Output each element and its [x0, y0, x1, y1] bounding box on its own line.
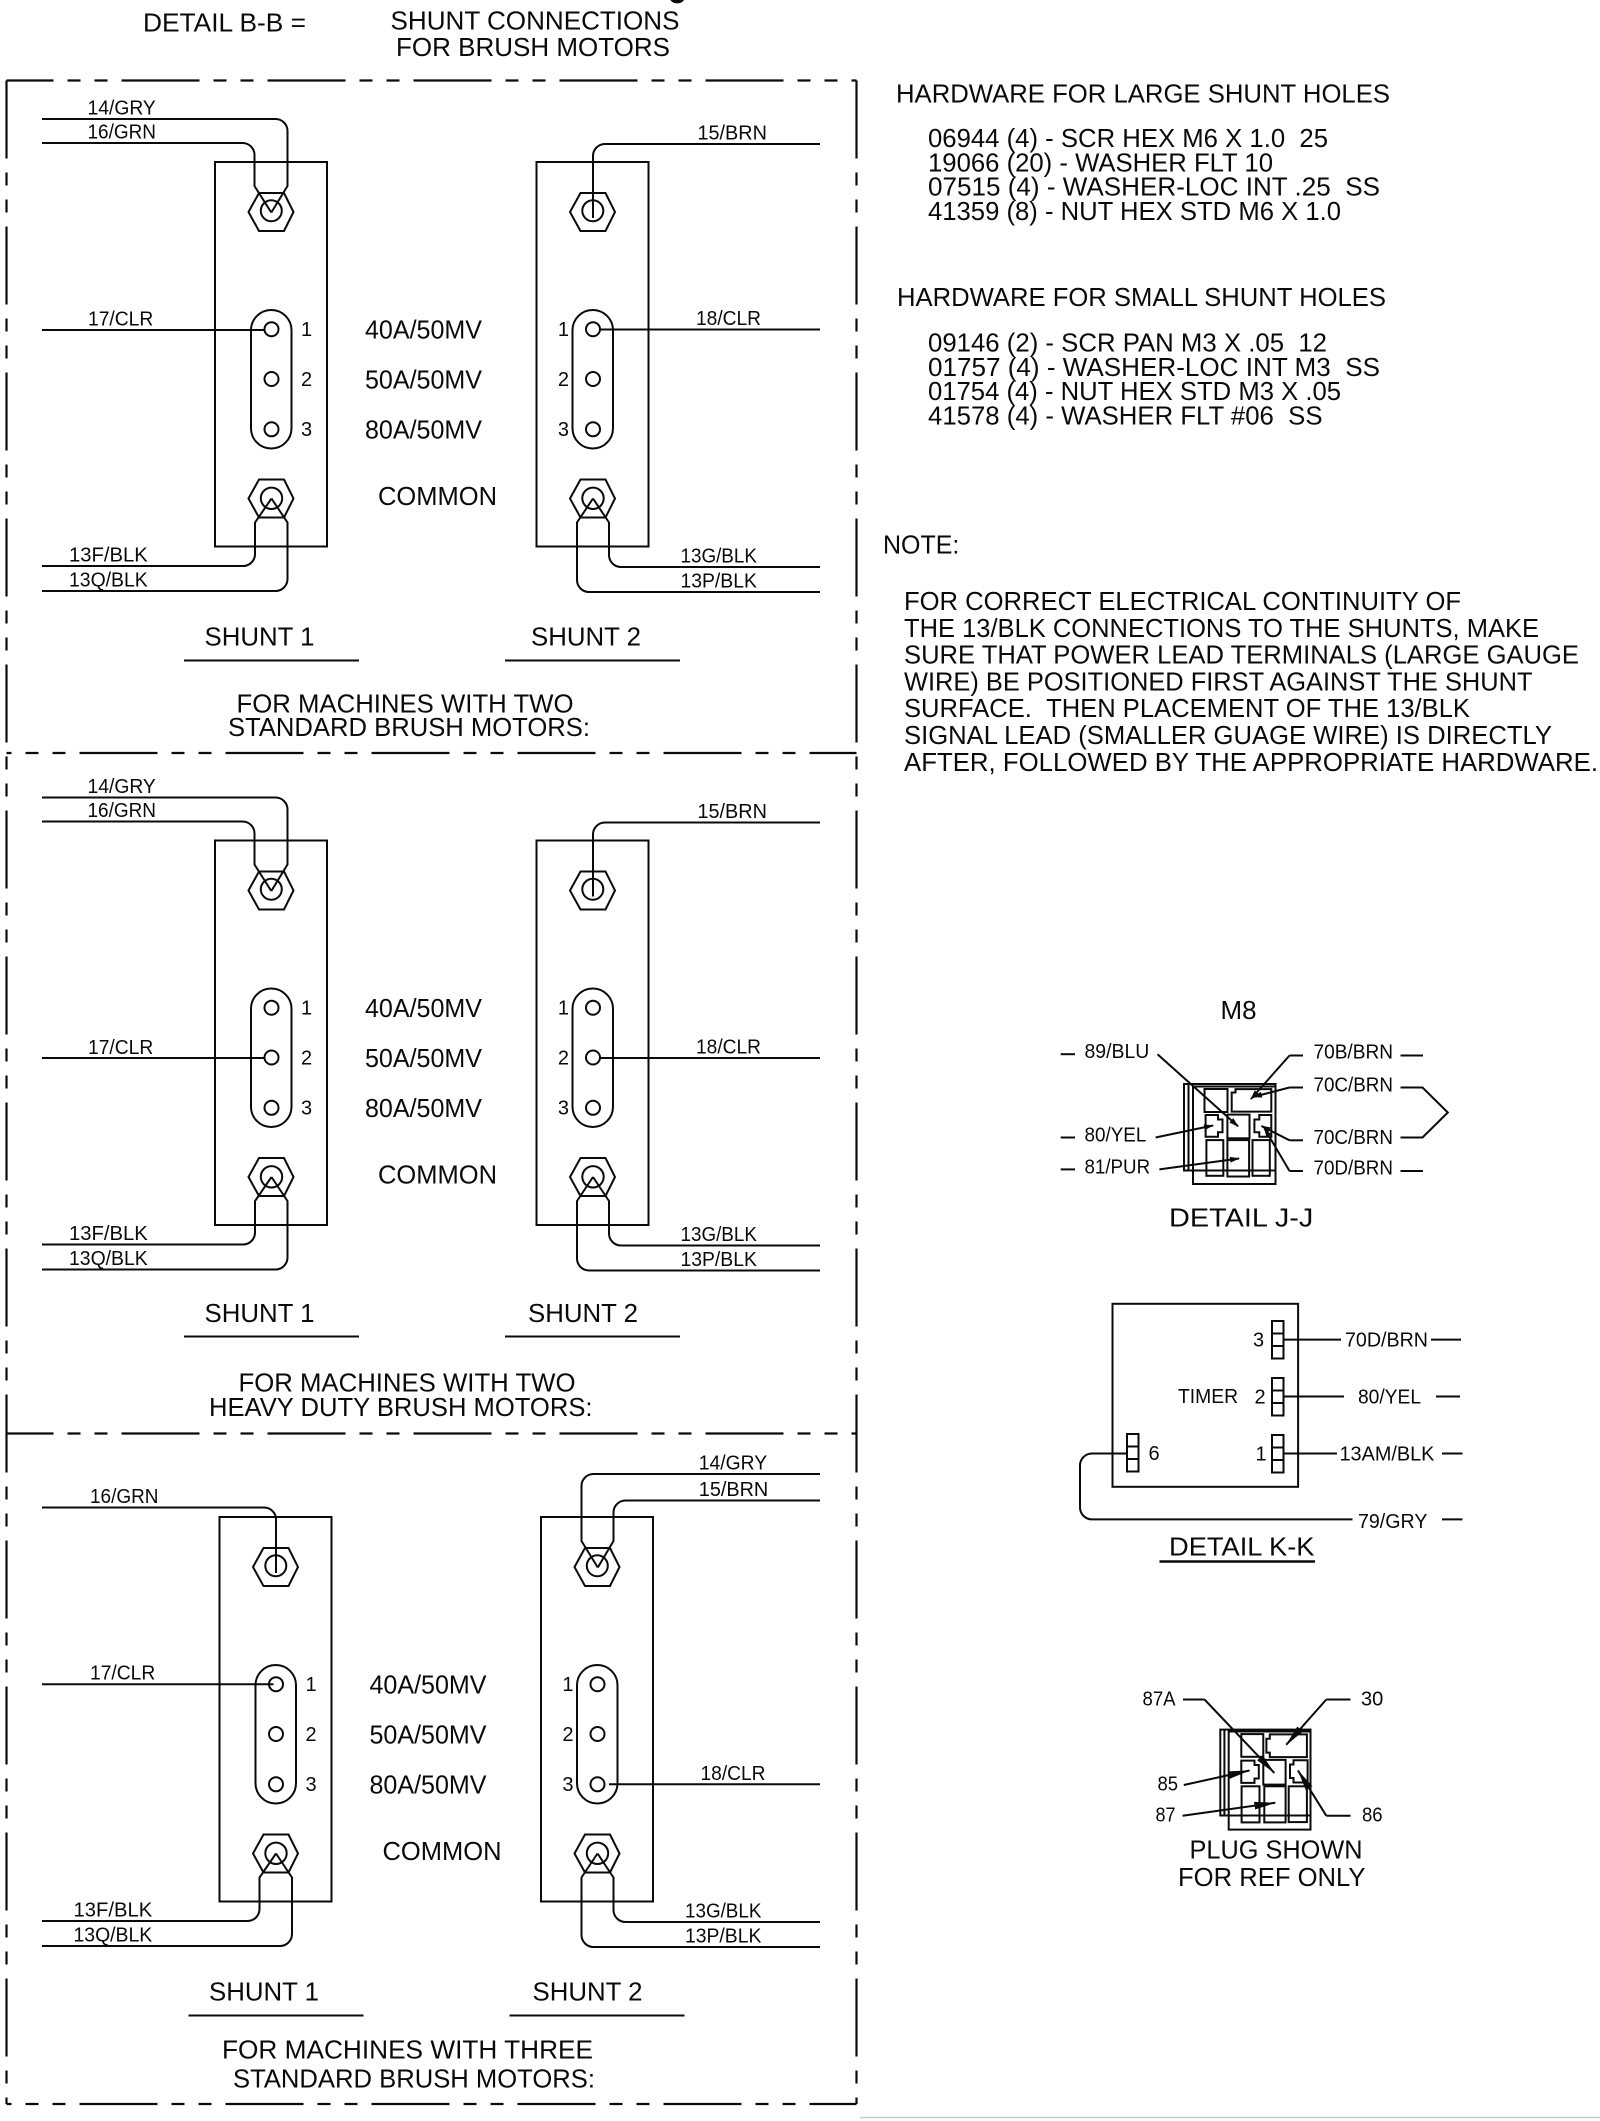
svg-text:70D/BRN: 70D/BRN: [1314, 1158, 1394, 1180]
svg-text:1: 1: [301, 998, 312, 1020]
svg-text:30: 30: [1361, 1689, 1383, 1711]
svg-text:14/GRY: 14/GRY: [699, 1453, 767, 1475]
svg-text:3: 3: [301, 1098, 312, 1120]
svg-text:15/BRN: 15/BRN: [698, 123, 767, 145]
svg-text:3: 3: [305, 1774, 316, 1796]
svg-text:87: 87: [1156, 1805, 1176, 1827]
svg-text:41578 (4) - WASHER FLT #06 SS: 41578 (4) - WASHER FLT #06 SS: [928, 400, 1323, 430]
svg-text:WIRE) BE POSITIONED FIRST AGAI: WIRE) BE POSITIONED FIRST AGAINST THE SH…: [904, 666, 1533, 696]
svg-text:18/CLR: 18/CLR: [696, 308, 761, 330]
svg-text:14/GRY: 14/GRY: [88, 98, 156, 120]
svg-text:17/CLR: 17/CLR: [88, 1037, 153, 1059]
svg-text:18/CLR: 18/CLR: [701, 1763, 766, 1785]
svg-text:SHUNT 2: SHUNT 2: [528, 1298, 638, 1328]
svg-text:13F/BLK: 13F/BLK: [69, 545, 148, 567]
svg-text:STANDARD BRUSH MOTORS:: STANDARD BRUSH MOTORS:: [233, 2064, 595, 2094]
svg-text:STANDARD BRUSH MOTORS:: STANDARD BRUSH MOTORS:: [228, 712, 590, 742]
svg-text:70B/BRN: 70B/BRN: [1314, 1042, 1394, 1064]
svg-text:13F/BLK: 13F/BLK: [69, 1223, 148, 1245]
svg-text:80A/50MV: 80A/50MV: [365, 415, 483, 445]
svg-text:NOTE:: NOTE:: [883, 530, 959, 560]
svg-text:DETAIL J-J: DETAIL J-J: [1169, 1203, 1313, 1233]
svg-text:13F/BLK: 13F/BLK: [74, 1900, 153, 1922]
svg-text:70D/BRN: 70D/BRN: [1345, 1330, 1428, 1352]
svg-text:16/GRN: 16/GRN: [88, 122, 157, 144]
svg-text:HARDWARE FOR LARGE SHUNT HOLES: HARDWARE FOR LARGE SHUNT HOLES: [896, 79, 1390, 109]
svg-text:SHUNT 1: SHUNT 1: [205, 622, 315, 652]
svg-text:16/GRN: 16/GRN: [88, 800, 157, 822]
svg-text:13P/BLK: 13P/BLK: [685, 1926, 762, 1948]
svg-text:50A/50MV: 50A/50MV: [365, 1043, 483, 1073]
svg-text:1: 1: [558, 998, 569, 1020]
svg-text:2: 2: [1254, 1387, 1265, 1409]
svg-text:SHUNT 1: SHUNT 1: [205, 1298, 315, 1328]
svg-text:13Q/BLK: 13Q/BLK: [69, 1248, 148, 1270]
svg-text:70C/BRN: 70C/BRN: [1314, 1127, 1394, 1149]
svg-text:3: 3: [558, 1098, 569, 1120]
svg-text:2: 2: [558, 369, 569, 391]
svg-text:18/CLR: 18/CLR: [696, 1037, 761, 1059]
svg-text:13G/BLK: 13G/BLK: [681, 1224, 758, 1246]
svg-text:THE 13/BLK CONNECTIONS TO THE: THE 13/BLK CONNECTIONS TO THE SHUNTS, MA…: [904, 613, 1539, 643]
svg-text:1: 1: [305, 1674, 316, 1696]
svg-text:15/BRN: 15/BRN: [699, 1479, 768, 1501]
svg-text:SHUNT CONNECTIONS: SHUNT CONNECTIONS: [391, 6, 680, 36]
svg-text:13P/BLK: 13P/BLK: [681, 571, 758, 593]
svg-text:SURFACE. THEN PLACEMENT OF TH: SURFACE. THEN PLACEMENT OF THE 13/BLK: [904, 693, 1471, 723]
svg-text:3: 3: [301, 419, 312, 441]
svg-text:40A/50MV: 40A/50MV: [365, 315, 483, 345]
svg-text:DETAIL B-B =: DETAIL B-B =: [143, 8, 306, 38]
svg-text:41359 (8) - NUT HEX STD M6 X 1: 41359 (8) - NUT HEX STD M6 X 1.0: [928, 196, 1341, 226]
svg-text:DETAIL K-K: DETAIL K-K: [1169, 1532, 1315, 1562]
svg-text:13Q/BLK: 13Q/BLK: [69, 570, 148, 592]
svg-text:SHUNT 2: SHUNT 2: [533, 1977, 643, 2007]
svg-text:6: 6: [1148, 1443, 1159, 1465]
svg-text:1: 1: [1255, 1444, 1266, 1466]
svg-text:FOR REF ONLY: FOR REF ONLY: [1178, 1862, 1366, 1892]
svg-text:17/CLR: 17/CLR: [90, 1663, 155, 1685]
svg-text:COMMON: COMMON: [378, 1160, 497, 1190]
svg-text:81/PUR: 81/PUR: [1085, 1156, 1151, 1178]
svg-text:40A/50MV: 40A/50MV: [365, 993, 483, 1023]
svg-text:13G/BLK: 13G/BLK: [685, 1901, 762, 1923]
svg-text:2: 2: [301, 1048, 312, 1070]
svg-text:13G/BLK: 13G/BLK: [681, 546, 758, 568]
svg-text:TIMER: TIMER: [1178, 1386, 1238, 1408]
svg-text:COMMON: COMMON: [383, 1836, 502, 1866]
svg-text:85: 85: [1158, 1774, 1179, 1796]
svg-text:13Q/BLK: 13Q/BLK: [74, 1925, 153, 1947]
svg-text:1: 1: [562, 1674, 573, 1696]
svg-text:SIGNAL LEAD (SMALLER GUAGE WIR: SIGNAL LEAD (SMALLER GUAGE WIRE) IS DIRE…: [904, 720, 1552, 750]
svg-text:13AM/BLK: 13AM/BLK: [1340, 1444, 1436, 1466]
svg-text:FOR BRUSH MOTORS: FOR BRUSH MOTORS: [396, 32, 670, 62]
svg-text:14/GRY: 14/GRY: [88, 776, 156, 798]
svg-text:3: 3: [1253, 1330, 1264, 1352]
svg-text:2: 2: [558, 1048, 569, 1070]
svg-text:50A/50MV: 50A/50MV: [365, 365, 483, 395]
svg-text:HARDWARE FOR SMALL SHUNT HOLES: HARDWARE FOR SMALL SHUNT HOLES: [897, 282, 1386, 312]
svg-text:15/BRN: 15/BRN: [698, 801, 767, 823]
svg-text:3: 3: [558, 419, 569, 441]
svg-text:13P/BLK: 13P/BLK: [681, 1249, 758, 1271]
svg-text:M8: M8: [1221, 995, 1257, 1025]
svg-text:17/CLR: 17/CLR: [88, 309, 153, 331]
svg-text:70C/BRN: 70C/BRN: [1314, 1075, 1394, 1097]
svg-text:2: 2: [301, 369, 312, 391]
svg-text:86: 86: [1362, 1805, 1383, 1827]
svg-text:16/GRN: 16/GRN: [90, 1486, 159, 1508]
svg-text:SHUNT 1: SHUNT 1: [209, 1977, 319, 2007]
svg-text:AFTER, FOLLOWED BY THE APPROPR: AFTER, FOLLOWED BY THE APPROPRIATE HARDW…: [904, 747, 1598, 777]
svg-text:1: 1: [301, 319, 312, 341]
svg-text:SHUNT 2: SHUNT 2: [531, 622, 641, 652]
svg-text:HEAVY DUTY BRUSH MOTORS:: HEAVY DUTY BRUSH MOTORS:: [209, 1392, 593, 1422]
svg-text:79/GRY: 79/GRY: [1358, 1511, 1427, 1533]
svg-text:50A/50MV: 50A/50MV: [370, 1720, 488, 1750]
svg-text:40A/50MV: 40A/50MV: [370, 1670, 488, 1700]
svg-text:89/BLU: 89/BLU: [1085, 1041, 1150, 1063]
svg-text:COMMON: COMMON: [378, 481, 497, 511]
svg-text:3: 3: [562, 1774, 573, 1796]
svg-text:FOR MACHINES WITH THREE: FOR MACHINES WITH THREE: [222, 2035, 593, 2065]
svg-text:FOR CORRECT ELECTRICAL CONTINU: FOR CORRECT ELECTRICAL CONTINUITY OF: [904, 586, 1461, 616]
svg-text:80/YEL: 80/YEL: [1358, 1387, 1421, 1409]
svg-text:80A/50MV: 80A/50MV: [370, 1770, 488, 1800]
svg-text:80/YEL: 80/YEL: [1085, 1125, 1147, 1147]
svg-text:87A: 87A: [1143, 1689, 1177, 1711]
svg-text:1: 1: [558, 319, 569, 341]
svg-text:SURE THAT POWER LEAD TERMINALS: SURE THAT POWER LEAD TERMINALS (LARGE GA…: [904, 640, 1579, 670]
svg-text:2: 2: [562, 1724, 573, 1746]
svg-text:PLUG SHOWN: PLUG SHOWN: [1190, 1835, 1363, 1865]
svg-text:2: 2: [305, 1724, 316, 1746]
svg-text:80A/50MV: 80A/50MV: [365, 1093, 483, 1123]
